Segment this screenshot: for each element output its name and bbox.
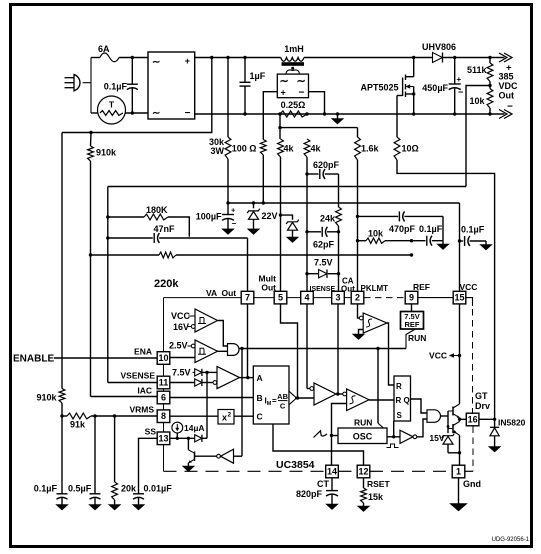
svg-text:UC3854: UC3854: [276, 459, 315, 471]
svg-text:0.1µF: 0.1µF: [461, 225, 485, 235]
wire enable to SS discharge: [241, 349, 243, 457]
resistor 10 ohm gate: [394, 137, 400, 160]
svg-text:S: S: [397, 411, 403, 420]
svg-text:910k: 910k: [96, 148, 117, 158]
wire osc right to S and inverter: [387, 436, 400, 438]
resistor 10k (pklmt): [358, 240, 367, 242]
pin 14 CT: [326, 465, 339, 478]
wire pin6 to mult B: [169, 397, 253, 399]
pin 7 VA Out: [241, 291, 254, 304]
capacitor 100uF VCC: [227, 203, 229, 215]
wire 91k to pin8: [91, 415, 157, 417]
svg-text:VSENSE: VSENSE: [121, 371, 156, 381]
svg-text:+: +: [185, 56, 190, 66]
svg-text:16: 16: [468, 415, 478, 425]
SS discharge transistor: [187, 438, 189, 450]
bridge rectifier BR1: [148, 52, 195, 119]
totem bottom transistor: [452, 424, 454, 433]
svg-text:REF: REF: [413, 282, 430, 292]
wire 620pF to 24k: [338, 174, 340, 207]
resistor 20k vrms: [114, 416, 116, 482]
svg-text:10: 10: [158, 353, 168, 363]
wire mult bottom to rset: [273, 424, 364, 465]
svg-text:0.01µF: 0.01µF: [144, 484, 173, 494]
RS flip-flop: [394, 376, 411, 421]
svg-text:Out: Out: [499, 91, 515, 101]
svg-text:4: 4: [304, 293, 309, 303]
wire 10k row to REF bypass: [412, 240, 426, 242]
svg-text:14µA: 14µA: [184, 423, 205, 433]
svg-text:RUN: RUN: [354, 418, 372, 428]
wire totem mid to pin16: [458, 418, 461, 421]
capacitor 62pF: [307, 231, 321, 233]
svg-text:100µF: 100µF: [196, 212, 222, 222]
svg-text:1mH: 1mH: [284, 44, 304, 54]
diode IN5820: [494, 419, 496, 427]
wire run to OSC: [377, 349, 379, 424]
wire vsense vertical: [107, 187, 109, 383]
resistor 511k: [487, 63, 493, 82]
AND gate enable: [228, 344, 240, 356]
svg-text:10k: 10k: [368, 229, 384, 239]
svg-text:47nF: 47nF: [154, 224, 176, 234]
svg-text:180K: 180K: [146, 205, 168, 215]
svg-text:ENA: ENA: [134, 347, 152, 357]
run rail from AND: [240, 347, 243, 350]
wire osc to ct node: [332, 435, 339, 437]
wire 100ohm to VCC rail: [262, 155, 264, 203]
svg-text:100 Ω: 100 Ω: [232, 144, 257, 154]
wire pin8 to x2 to mult C: [169, 415, 218, 417]
pin 8 VRMS: [157, 410, 170, 423]
svg-text:7: 7: [245, 293, 250, 303]
OSC block: [338, 428, 387, 444]
svg-text:R: R: [396, 382, 402, 391]
svg-text:470pF: 470pF: [389, 224, 416, 234]
wire Q to AND2: [411, 399, 428, 413]
capacitor 0.5µF vrms2: [94, 416, 96, 494]
vrms filter row: [60, 414, 63, 417]
svg-text:VA: VA: [206, 288, 217, 298]
svg-text:620pF: 620pF: [313, 160, 340, 170]
svg-text:−: −: [458, 87, 463, 97]
svg-text:6A: 6A: [98, 44, 110, 54]
wire pin4 to current amp: [306, 304, 308, 389]
output - arrow: [499, 110, 512, 119]
pin 6 IAC: [157, 391, 170, 404]
resistor 15k: [363, 478, 365, 488]
wire pin16 to gate line: [479, 418, 495, 420]
svg-text:∼: ∼: [280, 76, 289, 88]
svg-text:24k: 24k: [320, 214, 336, 224]
svg-text:12: 12: [358, 467, 368, 477]
pin 3 CA Out: [332, 291, 345, 304]
svg-text:22V: 22V: [262, 211, 278, 221]
wire pin3 to CA out: [337, 304, 339, 394]
svg-text:Out: Out: [261, 283, 276, 293]
squarer block x2: [218, 410, 234, 425]
inverter to SS transistor: [195, 455, 217, 457]
comparator PKLMT: [363, 313, 387, 333]
wire rect+ sense feed: [62, 58, 212, 133]
wire divider to vsense feedback: [466, 86, 490, 187]
svg-text:91k: 91k: [70, 420, 86, 430]
svg-text:4k: 4k: [311, 144, 322, 154]
aux rectifier box: [277, 74, 308, 98]
capacitor 0.1uF VCC bypass: [460, 240, 464, 242]
svg-text:UDG-92056-1: UDG-92056-1: [492, 537, 530, 543]
svg-text:1.6k: 1.6k: [361, 144, 380, 154]
svg-text:0.1µF: 0.1µF: [34, 484, 58, 494]
comparator 2.5V enable: [195, 340, 218, 363]
svg-text:Gnd: Gnd: [463, 479, 481, 489]
svg-text:∼: ∼: [297, 76, 306, 88]
diode SS clamp: [195, 435, 202, 442]
svg-text:RUN: RUN: [408, 333, 426, 343]
svg-text:3: 3: [335, 293, 340, 303]
aux winding of L1: [291, 67, 294, 70]
svg-text:1µF: 1µF: [250, 71, 266, 81]
svg-text:385: 385: [499, 72, 514, 82]
svg-text:20k: 20k: [121, 484, 137, 494]
wire 1.6k to pin2: [357, 160, 359, 291]
svg-text:AB: AB: [277, 392, 288, 401]
svg-text:R: R: [396, 396, 402, 405]
fuse F1 6A: [100, 53, 119, 62]
svg-text:Q: Q: [404, 396, 410, 405]
wire pin9 to REF: [411, 304, 413, 312]
UC3854 boundary right dashed: [472, 309, 474, 413]
zener 22V VCC clamp: [253, 203, 255, 208]
svg-text:4k: 4k: [284, 144, 295, 154]
resistor 910k bottom (VRMS): [59, 389, 65, 404]
resistor 100 ohm: [260, 140, 266, 156]
svg-text:A: A: [257, 373, 263, 383]
svg-text:Out: Out: [222, 288, 237, 298]
UC3854 boundary bottom dashed: [164, 470, 326, 472]
svg-text:+: +: [457, 75, 462, 84]
wire 7.5V/SS clamp vertical: [206, 372, 208, 438]
zener clamp at mult out node: [281, 215, 293, 220]
wire feedback to pin7: [247, 238, 249, 291]
wire gate lead: [397, 95, 403, 97]
wire thermistor leads: [91, 112, 98, 114]
pin 13 SS: [157, 432, 170, 445]
svg-text:0.1µF: 0.1µF: [104, 82, 128, 92]
wire pin10 to comparator: [169, 357, 195, 359]
resistor 180K feedback: [108, 216, 144, 218]
svg-text:16V: 16V: [173, 322, 189, 332]
ground pin1: [458, 478, 460, 504]
wire comp outputs to AND: [218, 321, 228, 347]
resistor 1.6k: [355, 137, 361, 160]
wire pklmt out to RS R: [387, 323, 394, 385]
svg-text:VCC: VCC: [460, 282, 478, 292]
capacitor 470pF: [358, 215, 399, 217]
wire aux- to return rail: [309, 92, 325, 114]
wire AND2 to totem base: [440, 415, 448, 417]
svg-text:B: B: [257, 393, 263, 403]
capacitor 1uF: [244, 58, 246, 83]
svg-text:62pF: 62pF: [313, 240, 335, 250]
svg-text:VRMS: VRMS: [129, 405, 154, 415]
inverter osc: [400, 430, 413, 443]
totem base rail: [447, 411, 449, 429]
AND2 gate drive: [427, 410, 440, 423]
svg-text:3W: 3W: [211, 146, 225, 156]
capacitor 47nF feedback: [108, 237, 153, 239]
AC plug P1: [74, 75, 80, 91]
pin 15 VCC: [453, 291, 466, 304]
svg-text:RSET: RSET: [367, 479, 390, 489]
resistor 30k 3W: [227, 58, 229, 138]
resistor 24k: [336, 207, 342, 226]
sawtooth glyph: [314, 431, 328, 438]
capacitor 0.1uF (REF bypass): [426, 236, 428, 246]
wire 24k to 62pF node: [338, 226, 340, 291]
wire vrms chain from line: [61, 133, 63, 389]
svg-text:CT: CT: [317, 479, 329, 489]
svg-text:−: −: [507, 102, 513, 113]
svg-text:ENABLE: ENABLE: [13, 354, 54, 365]
svg-text:13: 13: [158, 433, 168, 443]
svg-text:Drv: Drv: [475, 401, 490, 411]
pin 16 GT Drv: [466, 413, 479, 426]
svg-text:VCC: VCC: [171, 311, 191, 321]
ground at return rail: [332, 119, 344, 125]
svg-text:C: C: [280, 402, 286, 411]
svg-text:2.5V: 2.5V: [169, 341, 188, 351]
resistor 910k top (IAC): [88, 146, 94, 161]
diode 7.5V clamp pin4-pin3: [307, 273, 318, 275]
svg-text:−: −: [232, 219, 237, 228]
diode D1 UHV806: [433, 53, 443, 63]
resistor 4k (mult out): [278, 139, 284, 157]
pin 12 RSET: [357, 465, 370, 478]
wire pin5 to mult out: [281, 304, 298, 398]
node feedback divider: [488, 84, 491, 87]
UC3854 boundary top: [164, 297, 242, 299]
svg-text:10Ω: 10Ω: [402, 144, 419, 154]
svg-text:7.5V: 7.5V: [172, 368, 191, 378]
svg-text:6: 6: [161, 393, 166, 403]
comparator PWM: [343, 392, 347, 396]
pin 9 REF: [405, 291, 418, 304]
svg-text:11: 11: [159, 378, 169, 388]
wire totem low rail: [459, 435, 461, 465]
wire comparator to RS: [369, 399, 394, 401]
svg-text:VCC: VCC: [429, 351, 447, 361]
svg-text:5: 5: [278, 293, 283, 303]
wire pin7 to VA out: [247, 304, 249, 378]
svg-text:220k: 220k: [154, 278, 179, 290]
svg-text:C: C: [257, 412, 263, 422]
svg-text:7.5V: 7.5V: [314, 258, 333, 268]
wire plug to line node: [90, 58, 92, 114]
current source 14uA: [172, 422, 183, 433]
svg-text:PKLMT: PKLMT: [361, 284, 389, 293]
diode vsense to VA-: [169, 382, 195, 384]
svg-text:0.1µF: 0.1µF: [419, 224, 443, 234]
wire SS row: [169, 437, 195, 439]
UC3854 boundary left: [163, 298, 165, 352]
pin 11 VSENSE: [157, 376, 170, 389]
wire gate drive run: [397, 160, 495, 419]
svg-text:∼: ∼: [152, 108, 160, 119]
resistor 220k feedforward: [91, 254, 160, 256]
capacitor 0.01uF soft start: [139, 438, 158, 494]
resistor R shunt 0.25 ohm: [280, 111, 307, 117]
MOSFET Q1 APT5025: [402, 78, 404, 97]
svg-text:2: 2: [355, 293, 360, 303]
svg-text:VDC: VDC: [499, 81, 519, 91]
wire 4k to pin5 via clamp node: [280, 157, 282, 291]
svg-text:UHV806: UHV806: [422, 42, 456, 52]
VCC tap arrow: [451, 355, 460, 357]
svg-text:9: 9: [409, 293, 414, 303]
wire 4k to pin4: [306, 157, 308, 291]
wire pin2 to pklmt comp: [358, 304, 360, 318]
totem top transistor: [452, 407, 454, 416]
wire ct node to pin14: [331, 436, 333, 466]
wire rectified + rail: [195, 57, 281, 59]
svg-text:820pF: 820pF: [296, 489, 323, 499]
ground for REF bypass: [442, 241, 444, 244]
svg-text:−: −: [185, 108, 191, 119]
pin 5 Mult Out: [274, 291, 287, 304]
wire shunt left to divider row: [279, 114, 281, 139]
vsense feedback long rail: [108, 186, 466, 188]
svg-text:REF: REF: [405, 320, 420, 329]
wire aux+ to 100 ohm: [263, 92, 277, 140]
svg-text:IN5820: IN5820: [498, 418, 526, 428]
svg-text:15: 15: [454, 293, 464, 303]
pin 10 ENA: [157, 352, 170, 365]
wire inverter to AND2: [417, 419, 427, 437]
svg-text:x: x: [222, 413, 227, 423]
wire REF enable to run rail: [406, 329, 416, 349]
svg-text:15k: 15k: [368, 492, 384, 502]
comparator VCC/16V: [195, 309, 218, 332]
wire top AC line: [91, 57, 100, 59]
capacitor 620pF: [307, 173, 319, 175]
svg-text:511k: 511k: [467, 65, 488, 75]
resistor 4k (isense): [304, 139, 310, 157]
svg-text:IAC: IAC: [137, 386, 152, 396]
svg-text:0.5µF: 0.5µF: [68, 484, 92, 494]
svg-text:∼: ∼: [152, 57, 160, 68]
resistor 91k: [67, 413, 91, 419]
svg-text:T: T: [109, 100, 115, 110]
svg-text:SS: SS: [145, 427, 157, 437]
capacitor 450uF: [454, 58, 456, 84]
wire IAC chain to pin 6: [90, 161, 92, 397]
svg-text:0.25Ω: 0.25Ω: [281, 100, 306, 110]
resistor 10k output divider: [487, 89, 493, 108]
output + arrow: [499, 53, 512, 62]
svg-text:15V: 15V: [429, 433, 444, 443]
clock glyph: [387, 444, 399, 448]
svg-text:910k: 910k: [36, 393, 57, 403]
svg-text:GT: GT: [475, 391, 488, 401]
wire VA out to mult A: [240, 377, 254, 379]
mult output arrow: [289, 391, 297, 405]
current amplifier CA: [314, 383, 336, 405]
svg-text:450µF: 450µF: [422, 83, 448, 93]
capacitor 0.1uF across line: [131, 58, 133, 85]
svg-text:10k: 10k: [469, 96, 485, 106]
VCC rail: [228, 202, 460, 204]
inductor L1 1mH: [281, 58, 304, 62]
wire rectified - rail: [195, 113, 505, 115]
wire CA out node: [336, 393, 343, 395]
voltage amp VA: [217, 367, 240, 389]
multiplier block: [253, 366, 289, 424]
ground pklmt comp: [359, 330, 364, 335]
7.5V REF block: [401, 312, 424, 330]
svg-text:2: 2: [228, 412, 232, 419]
wire osc ramp to comparator: [332, 404, 347, 436]
svg-text:8: 8: [161, 411, 166, 421]
capacitor 0.1uF vrms1: [61, 416, 63, 494]
capacitor 820pF: [331, 478, 333, 491]
svg-text:−: −: [299, 88, 305, 99]
pin 1 Gnd: [452, 465, 465, 478]
svg-text:1: 1: [456, 467, 461, 477]
svg-text:+: +: [281, 88, 286, 98]
svg-text:APT5025: APT5025: [360, 83, 398, 93]
thermistor T: [98, 96, 126, 124]
wire mult out node: [295, 397, 314, 399]
svg-text:14: 14: [327, 467, 337, 477]
pin 4 ISENSE: [301, 291, 314, 304]
zener 15V: [447, 429, 449, 434]
svg-text:+: +: [231, 206, 236, 215]
pin 2 PKLMT: [351, 291, 364, 304]
svg-text:OSC: OSC: [353, 432, 373, 442]
VCC vertical to totem: [459, 304, 461, 404]
